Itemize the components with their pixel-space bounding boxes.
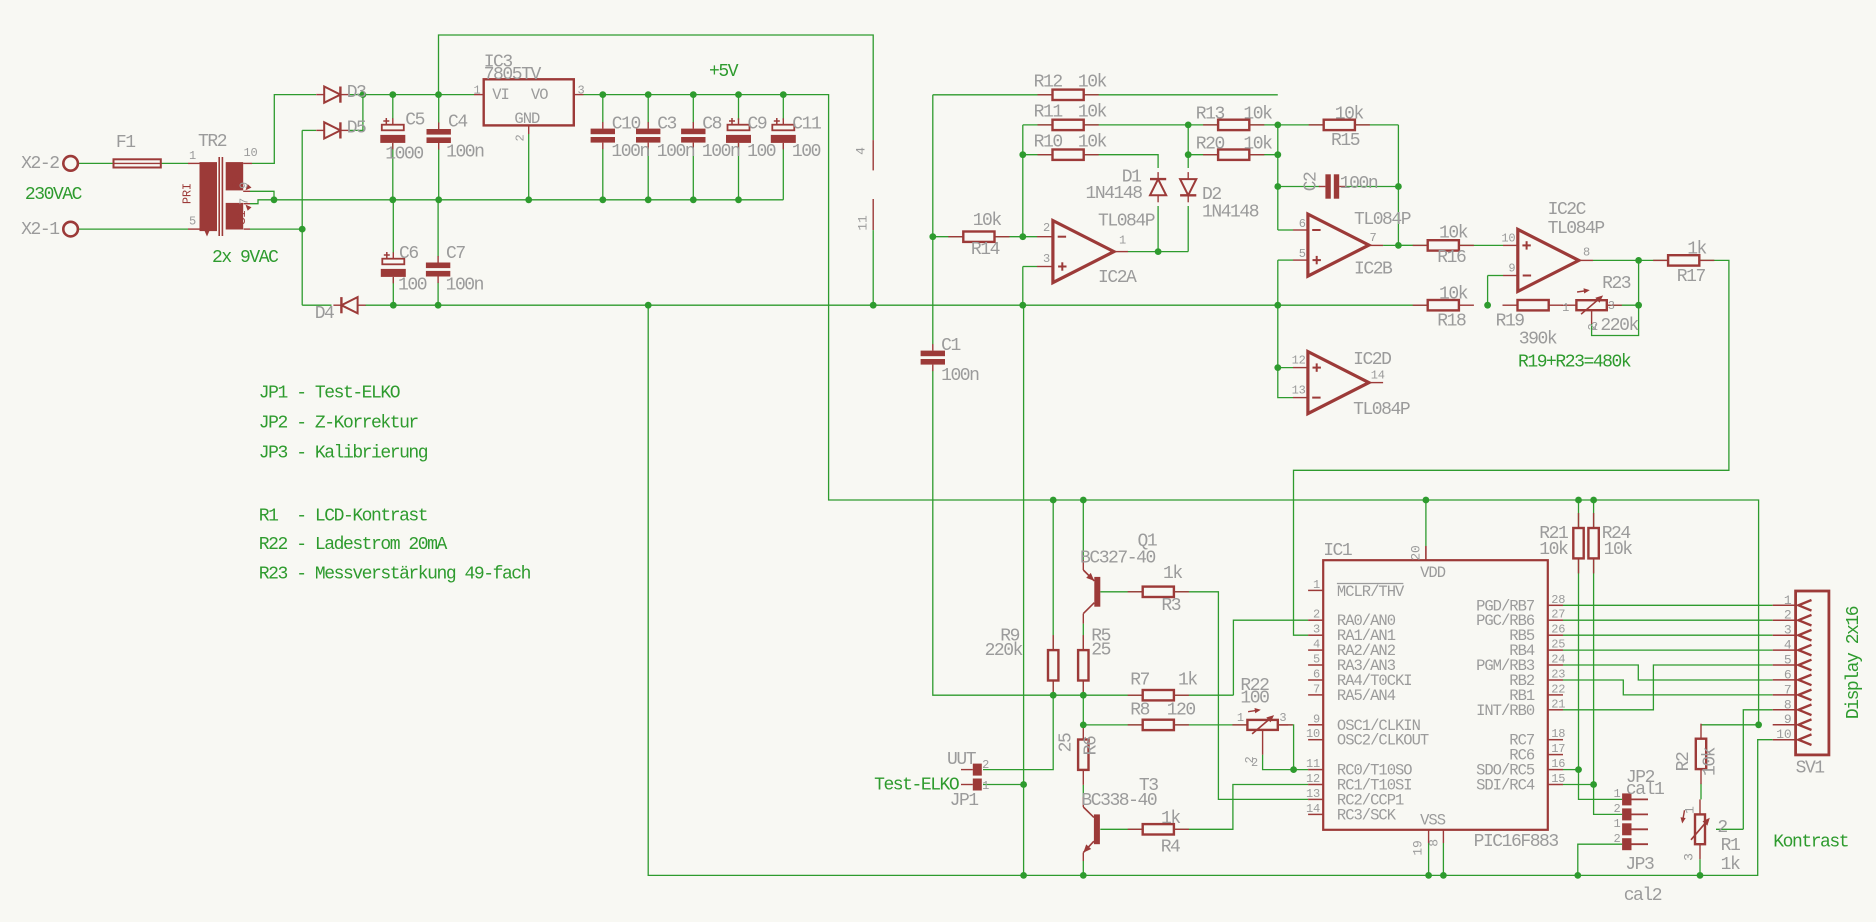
svg-text:PIC16F883: PIC16F883	[1474, 832, 1559, 852]
svg-text:25: 25	[1056, 733, 1076, 752]
svg-text:10k: 10k	[1335, 105, 1364, 125]
svg-text:9: 9	[1313, 712, 1320, 726]
svg-text:1: 1	[473, 84, 480, 98]
svg-text:JP3: JP3	[1625, 855, 1654, 875]
svg-text:VSS: VSS	[1420, 812, 1446, 830]
svg-text:C2: C2	[1302, 172, 1322, 191]
svg-text:24: 24	[1551, 653, 1565, 667]
svg-text:2: 2	[1043, 221, 1050, 235]
svg-text:1N4148: 1N4148	[1202, 203, 1259, 223]
svg-text:C6: C6	[399, 244, 418, 264]
svg-text:19: 19	[1411, 840, 1426, 855]
svg-text:IC2B: IC2B	[1354, 260, 1393, 280]
svg-text:IC1: IC1	[1323, 541, 1352, 561]
svg-text:2: 2	[982, 758, 989, 772]
svg-text:100: 100	[792, 142, 821, 162]
svg-text:R7: R7	[1130, 671, 1149, 691]
svg-text:10k: 10k	[1701, 747, 1721, 776]
svg-text:8: 8	[1784, 697, 1792, 712]
svg-text:R17: R17	[1677, 267, 1706, 287]
svg-text:25: 25	[1091, 641, 1110, 661]
svg-text:3: 3	[578, 84, 585, 98]
svg-text:10k: 10k	[1604, 540, 1633, 560]
svg-text:R19+R23=480k: R19+R23=480k	[1518, 352, 1631, 372]
svg-text:17: 17	[1551, 742, 1565, 756]
svg-text:100n: 100n	[702, 142, 740, 162]
svg-text:27: 27	[1551, 608, 1565, 622]
svg-text:100: 100	[747, 142, 776, 162]
svg-text:3: 3	[1279, 711, 1286, 725]
svg-text:D4: D4	[315, 304, 334, 324]
svg-text:TL084P: TL084P	[1548, 219, 1605, 239]
svg-text:INT/RB0: INT/RB0	[1476, 702, 1535, 720]
svg-text:12: 12	[1306, 772, 1320, 786]
svg-text:5: 5	[1299, 247, 1306, 261]
svg-text:4: 4	[854, 147, 869, 155]
svg-text:D3: D3	[347, 83, 366, 103]
svg-text:10: 10	[1501, 232, 1515, 246]
svg-text:BC327-40: BC327-40	[1080, 549, 1155, 569]
svg-text:10k: 10k	[1078, 72, 1107, 92]
svg-text:VI: VI	[492, 86, 509, 104]
svg-text:1k: 1k	[1687, 239, 1706, 259]
svg-text:7: 7	[1370, 231, 1377, 245]
svg-text:MCLR/THV: MCLR/THV	[1337, 583, 1405, 601]
svg-text:R1: R1	[1721, 836, 1740, 856]
svg-text:10k: 10k	[1243, 105, 1272, 125]
svg-text:UUT: UUT	[947, 750, 977, 770]
svg-text:20: 20	[1409, 545, 1424, 560]
svg-text:R20: R20	[1196, 135, 1225, 155]
svg-text:15: 15	[1551, 772, 1565, 786]
svg-text:10k: 10k	[973, 211, 1002, 231]
svg-text:9: 9	[238, 182, 252, 189]
svg-text:8: 8	[1426, 839, 1441, 847]
svg-text:Display 2x16: Display 2x16	[1844, 606, 1864, 719]
svg-text:2: 2	[1717, 818, 1727, 838]
svg-text:C4: C4	[448, 113, 467, 133]
svg-text:R15: R15	[1331, 131, 1360, 151]
svg-text:16: 16	[1551, 757, 1565, 771]
svg-text:R14: R14	[971, 240, 1000, 260]
svg-text:13: 13	[1306, 787, 1320, 801]
svg-text:120: 120	[1167, 701, 1196, 721]
svg-text:10k: 10k	[1539, 540, 1568, 560]
svg-text:JP1 - Test-ELKO: JP1 - Test-ELKO	[259, 384, 400, 404]
svg-text:220k: 220k	[985, 641, 1023, 661]
svg-text:6: 6	[1313, 668, 1320, 682]
svg-text:5: 5	[189, 215, 196, 229]
svg-text:IC2A: IC2A	[1098, 268, 1137, 288]
svg-text:10k: 10k	[1243, 135, 1272, 155]
svg-text:C7: C7	[446, 244, 465, 264]
svg-text:7: 7	[1313, 682, 1320, 696]
svg-text:3: 3	[1784, 623, 1792, 638]
svg-text:4: 4	[1313, 638, 1320, 652]
svg-text:9: 9	[1508, 262, 1515, 276]
svg-text:12: 12	[1292, 354, 1306, 368]
svg-text:C10: C10	[612, 115, 641, 135]
svg-text:C8: C8	[702, 115, 721, 135]
svg-text:5: 5	[1784, 653, 1792, 668]
svg-text:JP3 - Kalibrierung: JP3 - Kalibrierung	[259, 444, 428, 464]
svg-text:100n: 100n	[657, 142, 695, 162]
svg-text:25: 25	[1551, 638, 1565, 652]
svg-text:14: 14	[1371, 369, 1385, 383]
svg-text:R18: R18	[1437, 312, 1466, 332]
svg-text:2: 2	[1784, 608, 1792, 623]
svg-text:1: 1	[1237, 711, 1244, 725]
svg-text:VO: VO	[531, 86, 548, 104]
svg-text:1000: 1000	[385, 144, 423, 164]
svg-text:11: 11	[856, 215, 871, 231]
svg-text:RC3/SCK: RC3/SCK	[1337, 806, 1397, 824]
svg-text:10k: 10k	[1078, 103, 1107, 123]
svg-text:3: 3	[1043, 252, 1050, 266]
svg-text:22: 22	[1551, 682, 1565, 696]
svg-text:10: 10	[1306, 727, 1320, 741]
svg-text:230VAC: 230VAC	[25, 185, 83, 205]
svg-text:R23 - Messverstärkung 49-fach: R23 - Messverstärkung 49-fach	[259, 565, 531, 585]
svg-text:2: 2	[1243, 756, 1257, 763]
svg-text:1k: 1k	[1163, 564, 1182, 584]
svg-text:390k: 390k	[1519, 330, 1557, 350]
svg-text:21: 21	[1551, 697, 1565, 711]
svg-text:5: 5	[1313, 653, 1320, 667]
svg-text:C11: C11	[792, 115, 821, 135]
svg-text:2: 2	[1613, 832, 1620, 846]
svg-text:R1 - LCD-Kontrast: R1 - LCD-Kontrast	[259, 506, 427, 526]
svg-text:R12: R12	[1034, 72, 1063, 92]
svg-text:10k: 10k	[1078, 132, 1107, 152]
svg-text:2: 2	[1613, 802, 1620, 816]
svg-text:1: 1	[1613, 817, 1620, 831]
svg-text:13: 13	[1292, 384, 1306, 398]
svg-text:9: 9	[1784, 712, 1792, 727]
svg-text:2: 2	[1313, 608, 1320, 622]
svg-text:1k: 1k	[1161, 809, 1180, 829]
svg-text:R3: R3	[1161, 596, 1180, 616]
svg-text:3: 3	[1682, 853, 1697, 861]
svg-text:8: 8	[1583, 246, 1590, 260]
svg-text:R16: R16	[1437, 248, 1466, 268]
svg-text:X2-1: X2-1	[21, 220, 59, 240]
svg-text:1: 1	[1119, 234, 1126, 248]
svg-text:1: 1	[189, 149, 196, 163]
svg-text:1: 1	[1313, 578, 1320, 592]
svg-text:TL084P: TL084P	[1098, 211, 1155, 231]
svg-text:7: 7	[1784, 682, 1792, 697]
svg-text:10: 10	[1776, 727, 1791, 742]
svg-text:10k: 10k	[1439, 285, 1468, 305]
svg-text:IC2D: IC2D	[1353, 350, 1391, 370]
svg-text:R11: R11	[1034, 103, 1063, 123]
svg-text:1N4148: 1N4148	[1086, 184, 1143, 204]
svg-text:6: 6	[1299, 217, 1306, 231]
svg-text:100n: 100n	[1340, 174, 1378, 194]
svg-text:S1: S1	[235, 211, 249, 225]
svg-text:+5V: +5V	[709, 62, 739, 82]
svg-text:C1: C1	[941, 336, 960, 356]
svg-text:C9: C9	[748, 115, 767, 135]
svg-text:1k: 1k	[1721, 855, 1740, 875]
svg-text:C5: C5	[405, 111, 424, 131]
svg-text:R19: R19	[1496, 312, 1525, 332]
svg-text:D5: D5	[347, 118, 366, 138]
svg-text:R23: R23	[1602, 274, 1631, 294]
svg-text:7: 7	[238, 198, 252, 205]
svg-text:X2-2: X2-2	[21, 154, 59, 174]
svg-text:100n: 100n	[446, 143, 484, 163]
svg-text:TR2: TR2	[198, 132, 227, 152]
svg-text:100n: 100n	[446, 276, 484, 296]
svg-text:PRI: PRI	[181, 183, 195, 204]
svg-text:23: 23	[1551, 668, 1565, 682]
svg-text:TL084P: TL084P	[1354, 210, 1411, 230]
svg-text:1: 1	[1613, 787, 1620, 801]
svg-text:1: 1	[982, 779, 989, 793]
svg-text:18: 18	[1551, 727, 1565, 741]
svg-text:100: 100	[398, 276, 427, 296]
svg-text:JP2 - Z-Korrektur: JP2 - Z-Korrektur	[259, 414, 419, 434]
svg-text:Test-ELKO: Test-ELKO	[874, 776, 959, 796]
svg-text:R10: R10	[1034, 132, 1063, 152]
svg-text:R2: R2	[1674, 752, 1694, 771]
svg-text:14: 14	[1306, 802, 1320, 816]
svg-text:1: 1	[1562, 301, 1569, 315]
svg-text:3: 3	[1608, 299, 1615, 313]
svg-text:R6: R6	[1082, 736, 1102, 755]
svg-text:4: 4	[1784, 638, 1792, 653]
svg-text:2: 2	[514, 134, 528, 141]
svg-text:OSC2/CLKOUT: OSC2/CLKOUT	[1337, 732, 1429, 750]
svg-text:100: 100	[1240, 689, 1269, 709]
svg-text:26: 26	[1551, 623, 1565, 637]
svg-text:1: 1	[1784, 593, 1792, 608]
svg-text:R22 - Ladestrom 20mA: R22 - Ladestrom 20mA	[259, 535, 448, 555]
svg-text:100n: 100n	[941, 366, 979, 386]
svg-text:7805TV: 7805TV	[484, 65, 542, 85]
svg-text:1: 1	[1683, 806, 1698, 814]
svg-text:F1: F1	[116, 133, 135, 153]
svg-text:R8: R8	[1130, 701, 1149, 721]
svg-text:10: 10	[244, 146, 258, 160]
svg-text:C3: C3	[657, 115, 676, 135]
svg-text:100n: 100n	[611, 142, 649, 162]
svg-text:10k: 10k	[1439, 224, 1468, 244]
svg-text:R4: R4	[1161, 838, 1180, 858]
svg-text:SV1: SV1	[1796, 758, 1825, 778]
svg-text:cal2: cal2	[1624, 886, 1662, 906]
svg-text:BC338-40: BC338-40	[1081, 791, 1156, 811]
svg-text:28: 28	[1551, 593, 1565, 607]
svg-text:1k: 1k	[1178, 671, 1197, 691]
svg-text:VDD: VDD	[1420, 564, 1446, 582]
svg-text:RA5/AN4: RA5/AN4	[1337, 687, 1396, 705]
svg-text:220k: 220k	[1600, 316, 1638, 336]
svg-text:11: 11	[1306, 757, 1320, 771]
svg-text:SDI/RC4: SDI/RC4	[1476, 777, 1535, 795]
svg-text:2: 2	[1586, 323, 1600, 330]
svg-text:3: 3	[1313, 623, 1320, 637]
svg-text:2x 9VAC: 2x 9VAC	[212, 248, 279, 268]
svg-text:cal1: cal1	[1626, 780, 1664, 800]
svg-text:TL084P: TL084P	[1353, 400, 1410, 420]
svg-text:IC2C: IC2C	[1548, 200, 1587, 220]
svg-text:R13: R13	[1196, 105, 1225, 125]
svg-text:6: 6	[1784, 667, 1792, 682]
svg-text:GND: GND	[514, 110, 540, 128]
svg-text:Kontrast: Kontrast	[1773, 833, 1848, 853]
